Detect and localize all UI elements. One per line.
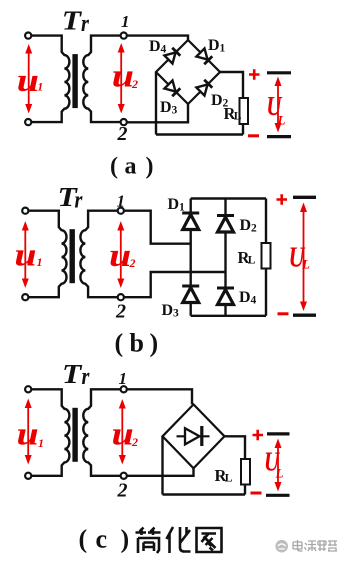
svg-text:D: D: [208, 37, 220, 54]
u1 arrow (c): [25, 399, 32, 465]
svg-text:4: 4: [161, 44, 167, 56]
UL label (b): [289, 241, 310, 274]
plus sign (b): [277, 194, 288, 204]
svg-text:2: 2: [131, 435, 138, 449]
diode D1 (a): [196, 48, 212, 64]
wire left vertex down (a): [155, 72, 157, 135]
diode D3 (b): [182, 286, 199, 303]
minus sign (c): [251, 492, 262, 495]
svg-text:D: D: [162, 302, 174, 319]
label RL (a): [224, 104, 242, 123]
svg-text:2: 2: [131, 77, 138, 91]
UL arrow (c): [275, 439, 282, 492]
resistor RL (c): [241, 459, 250, 485]
svg-text:1: 1: [220, 43, 226, 55]
u1 arrow (a): [25, 44, 32, 114]
resistor RL (a): [240, 98, 249, 124]
svg-text:4: 4: [251, 295, 257, 307]
label Tr (c): [62, 360, 90, 390]
wire terminal1 to bridge top vertex (a): [127, 36, 188, 40]
diode D3 (a): [164, 80, 180, 96]
svg-text:2: 2: [117, 480, 128, 502]
svg-text:T: T: [62, 6, 82, 36]
svg-text:D: D: [211, 92, 223, 109]
label D4 (b): [239, 289, 257, 307]
bridge rectifier diamond (c): [163, 404, 225, 468]
svg-text:u: u: [109, 236, 131, 273]
label RL (c): [215, 466, 233, 485]
svg-text:D: D: [168, 196, 180, 213]
label Tr (a): [62, 6, 89, 36]
u2 label (b): [109, 236, 136, 273]
svg-text:2: 2: [115, 301, 126, 323]
UL label (a): [266, 91, 285, 127]
wire bottom rail (b): [191, 315, 266, 317]
diode D4 (a): [164, 48, 180, 64]
bridge inner diode (c): [177, 426, 210, 446]
wire output branch (b): [265, 199, 267, 316]
transformer Tr (a): [25, 33, 127, 126]
svg-text:L: L: [225, 473, 233, 485]
svg-text:2: 2: [129, 256, 136, 270]
svg-text:u: u: [14, 236, 36, 273]
svg-text:3: 3: [172, 105, 178, 117]
wire left vertex down (c): [161, 436, 163, 494]
svg-text:u: u: [112, 415, 134, 452]
wire bottom vertex to node2 (a): [127, 104, 188, 122]
diode bridge diamond (a): [156, 40, 220, 104]
wire bottom vertex to node2 (c): [127, 468, 194, 476]
svg-text:(a): (a): [110, 154, 154, 180]
caption glyph jian (c): [136, 528, 161, 554]
plus sign (c): [253, 430, 264, 440]
UL top bar (b): [293, 196, 316, 199]
u1 label (c): [17, 415, 45, 452]
svg-text:1: 1: [119, 369, 128, 388]
watermark logo: [275, 540, 288, 553]
svg-text:r: r: [82, 362, 90, 389]
wire node2 step to right branch (b): [124, 272, 226, 297]
svg-text:1: 1: [117, 192, 126, 211]
svg-text:1: 1: [38, 436, 44, 450]
svg-text:D: D: [149, 38, 161, 55]
wire left branch (b): [189, 199, 191, 316]
diode D2 (b): [217, 216, 234, 233]
caption glyph hua (c): [167, 527, 191, 553]
svg-text:T: T: [62, 360, 82, 390]
minus sign (b): [278, 312, 289, 315]
svg-text:3: 3: [173, 308, 179, 320]
svg-text:u: u: [17, 61, 39, 98]
UL top bar (c): [267, 432, 290, 435]
UL arrow (b): [300, 203, 307, 312]
svg-text:D: D: [240, 217, 252, 234]
transformer Tr (b): [22, 208, 124, 301]
wire right branch (b): [224, 199, 226, 316]
wire top rail (b): [191, 197, 266, 199]
UL bottom bar (a): [267, 135, 291, 138]
u1 label (a): [17, 61, 44, 98]
caption glyph tu (c): [197, 528, 222, 552]
svg-text:2: 2: [251, 223, 257, 235]
label D4 (a): [149, 38, 167, 56]
transformer Tr (c): [25, 386, 127, 479]
u2 arrow (a): [118, 43, 125, 114]
wire right vertex to output (c): [225, 436, 246, 494]
diode D1 (b): [182, 213, 199, 230]
label Tr (b): [58, 183, 83, 213]
diode D2 (a): [196, 80, 212, 96]
label D1 (b): [168, 196, 186, 214]
svg-text:2: 2: [117, 123, 128, 145]
svg-text:r: r: [75, 186, 83, 213]
u2 label (c): [112, 415, 139, 452]
u2 arrow (b): [117, 221, 124, 288]
label RL (b): [238, 248, 256, 267]
label D1 (a): [208, 37, 226, 55]
svg-text:L: L: [234, 111, 242, 123]
UL label (c): [264, 447, 284, 481]
wire node1 step to left branch (b): [124, 211, 191, 244]
svg-text:(c): (c): [79, 525, 130, 554]
label D3 (a): [160, 99, 178, 117]
UL arrow (a): [275, 77, 282, 133]
wire node1 to bridge top vertex (c): [127, 389, 192, 404]
u2 label (a): [112, 57, 138, 94]
u2 arrow (c): [119, 399, 126, 465]
svg-text:(b): (b): [115, 329, 159, 358]
label D3 (b): [162, 302, 180, 320]
wire bottom rail (a): [156, 133, 243, 135]
svg-text:1: 1: [37, 80, 43, 94]
svg-text:D: D: [160, 99, 172, 116]
wire right vertex to output (a): [220, 72, 243, 135]
svg-text:u: u: [112, 57, 134, 94]
svg-text:L: L: [301, 257, 310, 272]
label D2 (b): [240, 217, 258, 235]
UL bottom bar (c): [266, 494, 290, 497]
plus sign (a): [249, 69, 260, 79]
svg-text:r: r: [81, 9, 89, 36]
label D2 (a): [211, 92, 229, 110]
svg-text:1: 1: [121, 12, 130, 31]
resistor RL (b): [262, 243, 271, 269]
minus sign (a): [248, 134, 259, 137]
svg-text:1: 1: [179, 202, 185, 214]
svg-text:L: L: [248, 255, 256, 267]
UL top bar (a): [267, 71, 291, 74]
svg-text:1: 1: [37, 255, 43, 269]
u1 arrow (b): [22, 221, 29, 288]
svg-text:D: D: [239, 289, 251, 306]
svg-text:L: L: [277, 113, 286, 128]
wire bottom rail (c): [163, 493, 246, 495]
watermark text dianyuanlianmeng: [293, 540, 337, 551]
svg-text:u: u: [17, 415, 39, 452]
u1 label (b): [14, 236, 42, 273]
svg-text:L: L: [275, 466, 284, 481]
diode D4 (b): [217, 288, 234, 305]
UL bottom bar (b): [293, 314, 316, 317]
